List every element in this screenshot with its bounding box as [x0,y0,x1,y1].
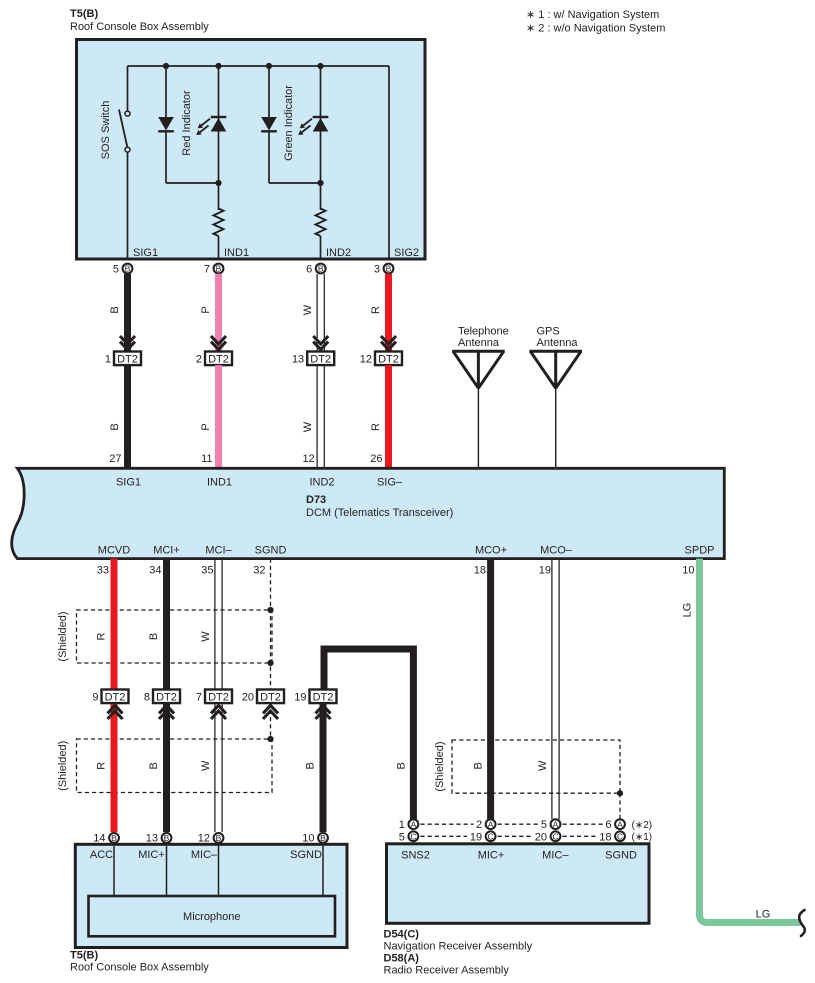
svg-text:8: 8 [144,691,150,703]
svg-text:SIG–: SIG– [377,477,403,489]
svg-text:MIC–: MIC– [191,849,218,861]
svg-text:11: 11 [201,453,212,465]
svg-text:SOS Switch: SOS Switch [100,101,112,160]
svg-text:W: W [200,760,212,771]
svg-text:(∗1): (∗1) [632,832,653,843]
svg-text:32: 32 [253,565,265,577]
svg-text:T5(B): T5(B) [70,950,98,962]
svg-text:R: R [370,306,382,314]
svg-text:19: 19 [539,565,551,577]
svg-text:SIG1: SIG1 [116,477,141,489]
svg-text:1: 1 [105,353,111,365]
svg-text:6: 6 [306,264,312,276]
svg-text:1: 1 [399,819,405,831]
svg-text:19: 19 [294,691,306,703]
svg-text:2: 2 [196,353,202,365]
svg-text:MIC–: MIC– [542,849,569,861]
svg-text:LG: LG [756,909,771,921]
svg-text:27: 27 [109,453,121,465]
svg-text:R: R [370,423,382,431]
svg-text:W: W [537,760,549,771]
svg-text:IND1: IND1 [207,477,232,489]
svg-text:7: 7 [204,264,210,276]
svg-text:14: 14 [93,833,105,845]
svg-text:ACC: ACC [90,849,113,861]
svg-text:DCM (Telematics Transceiver): DCM (Telematics Transceiver) [306,507,453,519]
svg-text:B: B [473,762,485,769]
svg-text:35: 35 [201,565,213,577]
svg-text:7: 7 [196,691,202,703]
svg-text:10: 10 [302,833,314,845]
svg-text:B: B [395,762,407,769]
svg-text:5: 5 [399,831,405,843]
svg-text:33: 33 [97,565,109,577]
svg-text:IND2: IND2 [309,477,334,489]
svg-text:19: 19 [470,831,482,843]
svg-text:20: 20 [535,831,547,843]
svg-text:Red Indicator: Red Indicator [181,90,193,156]
svg-text:18: 18 [474,565,486,577]
svg-text:Roof Console Box Assembly: Roof Console Box Assembly [70,21,209,33]
svg-text:3: 3 [374,264,380,276]
svg-text:(∗2): (∗2) [632,820,653,831]
svg-text:5: 5 [541,819,547,831]
svg-text:R: R [96,632,108,640]
svg-text:5: 5 [113,264,119,276]
svg-text:R: R [96,762,108,770]
svg-text:26: 26 [370,453,382,465]
svg-text:SIG2: SIG2 [394,247,419,259]
svg-text:6: 6 [605,819,611,831]
svg-text:P: P [200,423,212,430]
svg-text:34: 34 [149,565,161,577]
svg-text:Microphone: Microphone [183,911,240,923]
svg-text:B: B [109,423,121,430]
svg-text:10: 10 [682,565,694,577]
svg-text:SGND: SGND [255,545,287,557]
svg-text:W: W [200,631,212,642]
svg-text:SPDP: SPDP [685,545,715,557]
svg-text:SNS2: SNS2 [401,849,430,861]
svg-text:Telephone: Telephone [458,326,509,338]
svg-text:MCI+: MCI+ [153,545,180,557]
svg-text:13: 13 [292,353,304,365]
svg-text:20: 20 [242,691,254,703]
svg-text:Radio Receiver Assembly: Radio Receiver Assembly [384,965,510,977]
svg-text:MCO–: MCO– [540,545,573,557]
svg-text:MCVD: MCVD [98,545,130,557]
svg-text:D73: D73 [306,494,326,506]
svg-text:IND1: IND1 [224,247,249,259]
svg-text:∗ 1 : w/ Navigation System: ∗ 1 : w/ Navigation System [526,9,659,21]
svg-text:2: 2 [476,819,482,831]
svg-text:P: P [200,306,212,313]
svg-text:B: B [148,762,160,769]
svg-text:Antenna: Antenna [537,337,579,349]
svg-text:Navigation Receiver Assembly: Navigation Receiver Assembly [384,941,533,953]
svg-text:MIC+: MIC+ [138,849,165,861]
svg-text:MCO+: MCO+ [475,545,507,557]
svg-text:SIG1: SIG1 [133,247,158,259]
svg-text:W: W [302,421,314,432]
svg-text:12: 12 [198,833,210,845]
svg-text:IND2: IND2 [326,247,351,259]
svg-text:SGND: SGND [290,849,322,861]
svg-text:12: 12 [302,453,314,465]
svg-text:D58(A): D58(A) [384,953,420,965]
svg-text:GPS: GPS [537,326,560,338]
svg-text:B: B [305,762,317,769]
svg-text:SGND: SGND [605,849,637,861]
svg-text:MCI–: MCI– [205,545,232,557]
svg-text:12: 12 [360,353,372,365]
svg-text:∗ 2 : w/o Navigation System: ∗ 2 : w/o Navigation System [526,23,665,35]
svg-text:B: B [109,306,121,313]
svg-text:D54(C): D54(C) [384,929,420,941]
svg-text:Roof Console Box Assembly: Roof Console Box Assembly [70,962,209,974]
svg-text:(Shielded): (Shielded) [57,741,69,791]
svg-text:13: 13 [146,833,158,845]
svg-text:MIC+: MIC+ [478,849,505,861]
svg-text:B: B [148,633,160,640]
svg-text:Green Indicator: Green Indicator [283,85,295,161]
svg-text:LG: LG [682,603,694,618]
svg-text:(Shielded): (Shielded) [57,611,69,661]
svg-text:(Shielded): (Shielded) [434,741,446,791]
svg-text:T5(B): T5(B) [70,8,98,20]
svg-text:Antenna: Antenna [458,337,500,349]
svg-text:W: W [302,304,314,315]
svg-text:18: 18 [599,831,611,843]
svg-text:9: 9 [92,691,98,703]
